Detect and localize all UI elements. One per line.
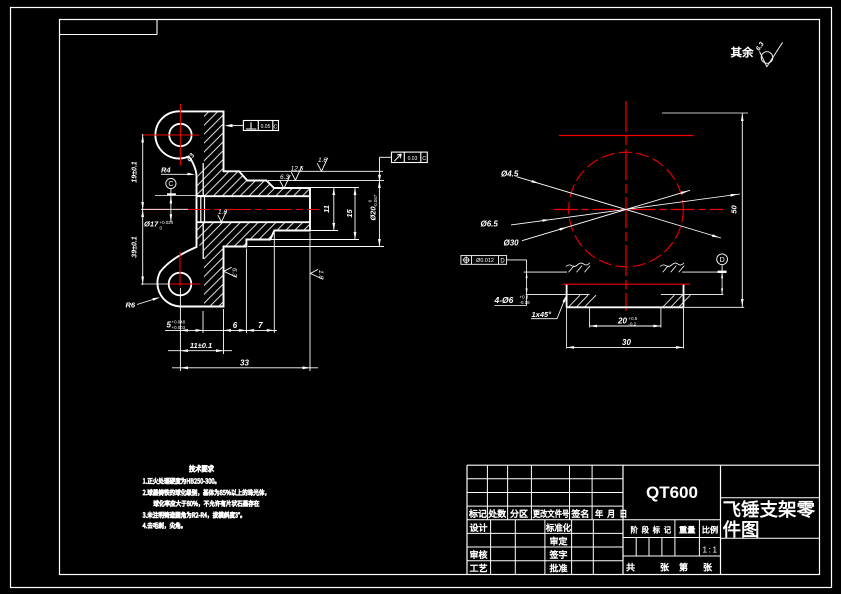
bore lines [197,195,311,197]
dim Ø17 [155,194,205,196]
top lobe hole [169,124,191,146]
circular runout tolerance frame [392,152,428,162]
dim 15 vertical [354,188,356,240]
svg-text:+0.5: +0.5 [629,316,638,321]
svg-text:+0.003: +0.003 [172,325,186,330]
svg-text:6.3: 6.3 [230,268,237,277]
dim 20 with tolerance [589,307,591,327]
dim Ø20 tol vertical [378,180,380,246]
svg-text:1:1: 1:1 [702,545,718,555]
broken-out section squiggle right [660,263,684,267]
svg-text:11±0.1: 11±0.1 [190,341,212,350]
technical requirements text [189,465,213,472]
svg-text:33: 33 [240,358,249,367]
svg-text:0.05: 0.05 [261,124,271,130]
left view: part outline [155,111,310,306]
svg-text:Ø0.012: Ø0.012 [476,258,494,264]
base block outline [566,284,568,307]
dim 30 [566,307,568,348]
dim 5 +tol [165,329,277,331]
svg-text:C: C [168,181,173,188]
roughness 6.3 rotated on plate edge [224,267,238,277]
svg-text:+0.024: +0.024 [160,220,174,225]
svg-text:12.5: 12.5 [291,166,304,173]
dim 50 [662,112,748,114]
svg-text:30: 30 [622,338,631,347]
left view: hatched lower section region [197,222,311,306]
svg-text:R4: R4 [161,166,171,175]
roughness 1.6 top [317,157,328,172]
right view: vertical centerline (red) [625,101,627,311]
broken-out section squiggle left [566,263,590,267]
bottom lobe centerlines (red) [179,252,181,286]
dim 11 vertical [333,188,335,231]
svg-text:Ø30: Ø30 [504,239,520,248]
dim 11±0.1 [168,350,232,352]
dim 19±0.1 / 39±0.1 vertical line [142,134,144,285]
perpendicularity tolerance frame [243,121,278,131]
dim 7 [246,329,254,332]
roughness 6.3 on step [280,174,291,189]
right view: horizontal centerline (red) [554,209,724,211]
svg-text:-0.067: -0.067 [373,194,378,207]
svg-text:1.6: 1.6 [318,157,327,164]
leader Ø30 [522,190,690,240]
extension lines bottom [179,288,181,371]
svg-text:R6: R6 [126,301,136,310]
svg-text:7: 7 [258,321,263,330]
shaft centerline (red dashed) [143,209,320,211]
right view: top hole centerline (red) [559,135,694,137]
note 其余 with roughness symbol [731,47,753,58]
svg-text:D: D [720,257,725,264]
svg-text:0.03: 0.03 [408,156,418,162]
svg-text:C: C [274,124,278,130]
leader Ø6.5 [511,194,740,225]
leader Ø4.5 [517,177,721,238]
right view: bottom hole centerline (red) [563,283,691,285]
svg-text:D: D [500,258,505,264]
corner hatch right [663,295,674,306]
title block grid [466,465,468,574]
svg-text:4-Ø6: 4-Ø6 [494,295,514,305]
title block labels [469,509,486,517]
roughness 12.5 on step [291,166,304,181]
svg-text:11: 11 [322,205,331,213]
datum D [717,254,728,265]
svg-text:Ø4.5: Ø4.5 [501,170,519,179]
svg-text:1.6: 1.6 [317,270,324,279]
svg-text:QT600: QT600 [646,483,698,502]
svg-text:+0.3: +0.3 [520,295,529,300]
svg-text:C: C [422,156,426,162]
svg-text:50: 50 [730,205,739,214]
dim 6 [224,329,232,332]
svg-text:6: 6 [233,321,238,330]
svg-text:15: 15 [345,209,354,218]
dim 33 [172,367,318,369]
top lobe centerlines (red) [179,104,181,166]
svg-text:20: 20 [617,317,627,326]
part name 飞锤支架零件图 [724,500,815,517]
corner hatch left [569,295,580,306]
bottom lobe hole [169,273,192,296]
svg-text:Ø6.5: Ø6.5 [481,220,499,229]
extension lines right [239,170,383,172]
svg-text:6.3: 6.3 [280,174,289,181]
svg-text:19±0.1: 19±0.1 [132,161,139,182]
left view: plate face internal edge [202,163,204,196]
roughness 1.6 in bore [218,209,228,222]
top-left reference box [60,34,158,36]
svg-text:Ø17: Ø17 [144,220,159,229]
hole section lines [524,271,567,273]
svg-text:1.6: 1.6 [218,209,227,216]
right view: bolt circle (red dashed) [569,152,684,267]
roughness 1.6 rotated at shaft end ext [310,269,324,279]
svg-text:-0.2: -0.2 [629,322,637,327]
svg-text:39±0.1: 39±0.1 [132,236,139,257]
datum C symbol [166,178,176,188]
left view: hatched upper section region [197,111,311,196]
position tolerance frame [461,256,507,265]
counterbore edges [200,196,202,222]
svg-text:1x45°: 1x45° [532,310,553,319]
svg-text:-0.18: -0.18 [520,300,531,305]
svg-text:+0.048: +0.048 [172,320,186,325]
